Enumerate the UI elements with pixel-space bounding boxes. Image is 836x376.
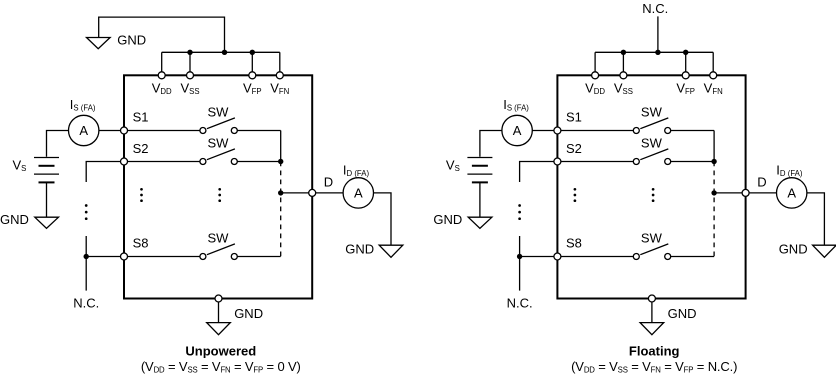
pin VDD (terminal on top edge): [592, 72, 599, 79]
wire (drain ammeter down to ground): [374, 193, 392, 245]
node (ellipsis, more S pins): [574, 188, 577, 202]
junction (bus / VSS stub): [187, 50, 192, 55]
svg-text:GND: GND: [0, 212, 29, 227]
wire (unused-source rail, lower part, to N.C.): [85, 236, 87, 291]
pin VFP (terminal on top edge): [682, 72, 689, 79]
svg-text:VSS: VSS: [180, 81, 199, 97]
ground (drain ammeter): [813, 245, 836, 257]
wire (battery + terminal up and to ammeter): [47, 131, 69, 157]
svg-text:GND: GND: [345, 242, 374, 257]
junction (drain column / S2): [278, 159, 283, 164]
node (ellipsis, more switches): [652, 188, 655, 202]
wire (bus stub to VFN pin): [712, 52, 714, 72]
battery VS (source voltage): [34, 158, 59, 183]
wire (switch throw to drain column): [237, 161, 280, 163]
svg-text:GND: GND: [117, 33, 146, 48]
pin S8 (terminal on left edge): [554, 253, 561, 260]
wire (bus stub to VDD pin): [594, 52, 596, 72]
svg-text:A: A: [787, 186, 796, 201]
switch SW (S8 channel): [633, 244, 670, 260]
wire (switch throw to drain column): [671, 130, 714, 132]
wire (switch throw to drain column): [671, 161, 714, 163]
wire (unused-source rail, lower part, to N.C.): [519, 236, 521, 291]
junction (bus / VSS stub): [621, 50, 626, 55]
svg-text:N.C.: N.C.: [507, 295, 533, 310]
pin D (terminal on right edge): [309, 189, 316, 196]
junction (drain column / S2): [711, 159, 716, 164]
wire (switch throw to drain column): [671, 256, 714, 258]
pin S2 (terminal on left edge): [554, 158, 561, 165]
pin VFP (terminal on top edge): [249, 72, 256, 79]
wire (drain column, dashed S2 junction to S8): [280, 162, 282, 257]
svg-text:S8: S8: [566, 236, 582, 251]
pin VFN (terminal on top edge): [710, 72, 717, 79]
pin VFN (terminal on top edge): [276, 72, 283, 79]
svg-text:SW: SW: [208, 231, 230, 246]
node (ellipsis, unused-source rail): [518, 204, 521, 220]
wire (battery - terminal to ground): [46, 182, 48, 217]
svg-text:IS (FA): IS (FA): [503, 97, 529, 113]
wire (ammeter to S1 pin): [99, 130, 121, 132]
wire (S2 pin to switch pole): [128, 161, 200, 163]
wire (D pin to drain ammeter): [749, 192, 776, 194]
svg-text:VFP: VFP: [676, 81, 695, 97]
svg-text:VSS: VSS: [614, 81, 633, 97]
junction (drain column / D branch): [711, 190, 716, 195]
wire (switch throw to drain column): [237, 130, 280, 132]
ground (battery): [468, 217, 492, 228]
wire (drain column to D pin): [281, 192, 309, 194]
svg-text:S1: S1: [566, 110, 582, 125]
wire (S1 pin to switch pole): [128, 130, 200, 132]
ammeter A (ID(FA) meter): [777, 178, 807, 208]
ground (drain ammeter): [379, 245, 403, 257]
pin S8 (terminal on left edge): [121, 253, 128, 260]
wire (GND pin down to ground): [218, 302, 220, 323]
wire (S2 pin to switch pole): [561, 161, 633, 163]
ground (top left): [87, 38, 111, 49]
wire (drain column, S1 to S2 junction): [713, 131, 715, 162]
svg-text:S8: S8: [133, 236, 149, 251]
ammeter A (IS(FA) meter): [69, 115, 99, 145]
node (ellipsis, more S pins): [140, 188, 143, 202]
ground (below box): [640, 323, 664, 335]
switch SW (S1 channel): [633, 118, 670, 134]
junction (unused rail / S8 tie): [84, 254, 89, 259]
wire (drain column to D pin): [714, 192, 742, 194]
svg-text:S2: S2: [133, 141, 149, 156]
junction (bus / VFP stub): [250, 50, 255, 55]
multiplexer U1 (switch-matrix body): [124, 75, 312, 298]
svg-text:ID (FA): ID (FA): [343, 163, 370, 179]
svg-text:ID (FA): ID (FA): [776, 163, 803, 179]
pin S2 (terminal on left edge): [121, 158, 128, 165]
pin D (terminal on right edge): [742, 189, 749, 196]
svg-text:S1: S1: [133, 110, 149, 125]
wire (from N.C. down to bus junction): [657, 16, 659, 52]
wire (drain column, S1 to S2 junction): [280, 131, 282, 162]
svg-text:A: A: [79, 123, 88, 138]
wire (battery + terminal up and to ammeter): [480, 131, 502, 157]
svg-text:SW: SW: [208, 105, 230, 120]
switch SW (S2 channel): [200, 149, 237, 165]
wire (bus stub to VFN pin): [279, 52, 281, 72]
wire (bus stub to VFP pin): [251, 52, 253, 72]
pin VDD (terminal on top edge): [158, 72, 165, 79]
wire (drain ammeter down to ground): [807, 193, 825, 245]
pin S1 (terminal on left edge): [554, 127, 561, 134]
svg-text:(VDD = VSS = VFN = VFP = 0 V): (VDD = VSS = VFN = VFP = 0 V): [141, 359, 301, 375]
junction (unused rail / S8 tie): [517, 254, 522, 259]
circuit: Unpowered condition (left): [0, 17, 403, 374]
wire (S8 pin to switch pole): [128, 256, 200, 258]
svg-text:D: D: [324, 175, 333, 190]
pin S1 (terminal on left edge): [121, 127, 128, 134]
wire (supply bus tying VDD, VSS, VFP, VFN together): [595, 51, 713, 53]
svg-text:IS (FA): IS (FA): [70, 97, 96, 113]
junction (bus / top feed): [655, 50, 660, 55]
wire (supply bus tying VDD, VSS, VFP, VFN together): [162, 51, 280, 53]
multiplexer U1 (switch-matrix body): [557, 75, 745, 298]
ammeter A (IS(FA) meter): [502, 115, 532, 145]
wire (S8 pin to switch pole): [561, 256, 633, 258]
svg-text:SW: SW: [641, 231, 663, 246]
svg-text:SW: SW: [208, 136, 230, 151]
circuit: Floating condition (right): [433, 1, 836, 374]
svg-text:SW: SW: [641, 136, 663, 151]
svg-text:GND: GND: [668, 306, 697, 321]
svg-text:Unpowered: Unpowered: [185, 344, 256, 359]
svg-text:VFP: VFP: [243, 81, 262, 97]
wire (unused rail to S8 pin): [520, 256, 554, 258]
node (ellipsis, unused-source rail): [85, 204, 88, 220]
svg-text:SW: SW: [641, 105, 663, 120]
wire (GND pin down to ground): [651, 302, 653, 323]
pin VSS (terminal on top edge): [187, 72, 194, 79]
switch SW (S2 channel): [633, 149, 670, 165]
junction (drain column / D branch): [278, 190, 283, 195]
ground (below box): [207, 323, 231, 335]
svg-text:GND: GND: [234, 306, 263, 321]
wire (bus stub to VDD pin): [161, 52, 163, 72]
wire (ammeter to S1 pin): [532, 130, 554, 132]
svg-text:VS: VS: [446, 158, 460, 174]
pin VSS (terminal on top edge): [620, 72, 627, 79]
wire (bus stub to VFP pin): [685, 52, 687, 72]
wire (bus stub to VSS pin): [622, 52, 624, 72]
switch SW (S1 channel): [200, 118, 237, 134]
wire (switch throw to drain column): [237, 256, 280, 258]
svg-text:GND: GND: [779, 242, 808, 257]
svg-text:VFN: VFN: [704, 81, 723, 97]
battery VS (source voltage): [467, 158, 492, 183]
svg-text:VDD: VDD: [152, 81, 172, 97]
junction (bus / top feed): [222, 50, 227, 55]
wire (battery - terminal to ground): [479, 182, 481, 217]
wire (S2 pin out to unused-source rail): [86, 162, 120, 183]
wire (D pin to drain ammeter): [316, 192, 343, 194]
wire (drain column, dashed S2 junction to S8): [713, 162, 715, 257]
wire (S2 pin out to unused-source rail): [520, 162, 554, 183]
svg-text:A: A: [354, 186, 363, 201]
svg-text:VDD: VDD: [585, 81, 605, 97]
pin GND (terminal on bottom edge): [648, 295, 655, 302]
wire (bus stub to VSS pin): [189, 52, 191, 72]
svg-text:N.C.: N.C.: [642, 1, 668, 16]
svg-text:D: D: [757, 175, 766, 190]
pin GND (terminal on bottom edge): [215, 295, 222, 302]
svg-text:GND: GND: [433, 212, 462, 227]
svg-text:S2: S2: [566, 141, 582, 156]
svg-text:(VDD = VSS = VFN = VFP = N.C.): (VDD = VSS = VFN = VFP = N.C.): [571, 359, 737, 375]
svg-text:N.C.: N.C.: [73, 295, 99, 310]
switch SW (S8 channel): [200, 244, 237, 260]
wire (S1 pin to switch pole): [561, 130, 633, 132]
svg-text:VS: VS: [13, 158, 27, 174]
node (ellipsis, more switches): [218, 188, 221, 202]
junction (bus / VFP stub): [683, 50, 688, 55]
svg-text:VFN: VFN: [270, 81, 289, 97]
wire (unused rail to S8 pin): [86, 256, 120, 258]
ammeter A (ID(FA) meter): [343, 178, 373, 208]
svg-text:A: A: [513, 123, 522, 138]
svg-text:Floating: Floating: [629, 344, 680, 359]
ground (battery): [35, 217, 59, 228]
wire (top GND feed: down from bus junction, left, down to ground): [99, 17, 225, 52]
